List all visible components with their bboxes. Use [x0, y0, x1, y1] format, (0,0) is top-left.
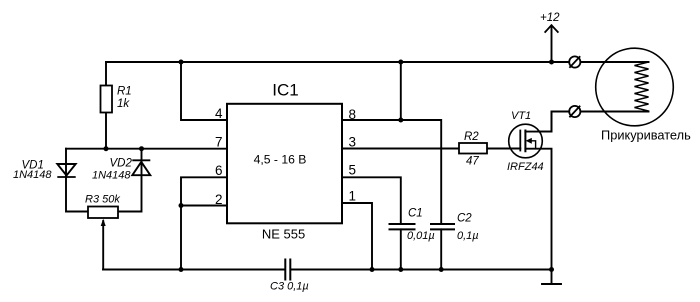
- svg-text:0,1µ: 0,1µ: [457, 230, 479, 242]
- svg-text:IC1: IC1: [272, 80, 298, 99]
- svg-text:R3 50k: R3 50k: [85, 194, 120, 206]
- svg-text:6: 6: [215, 163, 223, 178]
- svg-text:VD2: VD2: [110, 158, 133, 170]
- svg-text:0,01µ: 0,01µ: [407, 230, 435, 242]
- svg-text:C2: C2: [457, 212, 472, 224]
- svg-text:3: 3: [349, 135, 357, 150]
- svg-text:IRFZ44: IRFZ44: [507, 161, 544, 173]
- svg-text:R1: R1: [117, 86, 132, 98]
- svg-text:2: 2: [215, 192, 223, 207]
- svg-text:VT1: VT1: [511, 110, 531, 122]
- svg-text:Прикуриватель: Прикуриватель: [601, 128, 691, 143]
- svg-text:C3 0,1µ: C3 0,1µ: [270, 281, 309, 293]
- svg-text:+12: +12: [540, 12, 560, 24]
- svg-text:1N4148: 1N4148: [13, 169, 52, 181]
- svg-text:7: 7: [215, 135, 223, 150]
- svg-text:1: 1: [349, 189, 357, 204]
- svg-text:NE 555: NE 555: [262, 227, 305, 242]
- svg-text:5: 5: [349, 163, 357, 178]
- svg-text:R2: R2: [464, 131, 479, 143]
- svg-text:1N4148: 1N4148: [92, 170, 131, 182]
- svg-text:1k: 1k: [117, 98, 130, 110]
- svg-text:4,5 - 16 В: 4,5 - 16 В: [254, 153, 307, 167]
- svg-text:8: 8: [349, 107, 357, 122]
- svg-text:47: 47: [466, 156, 479, 168]
- svg-text:C1: C1: [408, 207, 423, 219]
- svg-text:4: 4: [215, 106, 223, 121]
